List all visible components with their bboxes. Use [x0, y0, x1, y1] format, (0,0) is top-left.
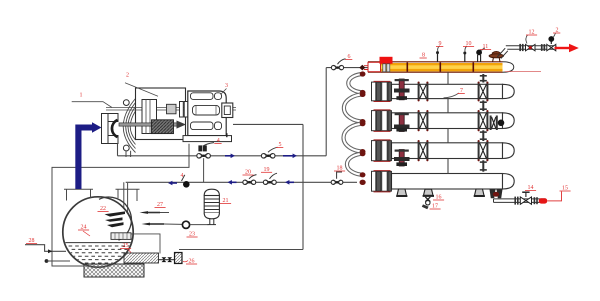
motor base plate [183, 136, 232, 142]
gauge 23 [182, 221, 189, 228]
branch fitting row 2 [399, 79, 404, 100]
sight glass ball [183, 181, 190, 188]
insulated heating pad 25 [84, 264, 144, 277]
tank label leaders [83, 231, 90, 236]
valve 18 [331, 180, 335, 184]
mid vertical connectors [447, 72, 449, 84]
inlet guide vane (dark crescent) [112, 120, 118, 137]
sample valve with handwheel (row3 right) [490, 116, 492, 131]
label 7 (tube row 2) [444, 93, 460, 98]
orifice fitting row 2 [478, 83, 480, 101]
inlet line to test tube [326, 67, 368, 69]
flange group row 3 [372, 111, 376, 131]
wire: compressor base down to discharge pipe [117, 144, 119, 156]
valve 11 on tube top [478, 55, 481, 62]
condenser tube row 2 [392, 84, 503, 98]
flange group row 4 [372, 141, 376, 161]
wire: bottom run to heater drive [179, 249, 303, 251]
svg-text:3: 3 [225, 83, 228, 89]
valve 19 [263, 180, 267, 184]
reducer fitting [359, 65, 365, 71]
return line (lower) [126, 181, 357, 183]
branch DC valve to return line [203, 158, 205, 182]
U-bend 150-181 [347, 154, 364, 175]
discharge pipe (upper line) [118, 155, 327, 157]
U-bend 67-91 [348, 74, 364, 92]
orifice fitting row 3 [478, 111, 480, 130]
drain stub [45, 259, 49, 263]
wire: motor output to right drop [233, 123, 303, 125]
electric heater elements 22 [105, 211, 126, 216]
riser to test tube inlet [325, 68, 327, 156]
drive shaft with couplings [159, 259, 175, 261]
orifice fitting row 3 [418, 111, 420, 130]
condenser tube row 5 [392, 174, 503, 190]
orifice fitting row 2 [418, 83, 420, 101]
valve 5 [261, 154, 266, 159]
valve 14 [520, 197, 526, 204]
vapour flow arrow (red) [555, 47, 571, 49]
red inlet block [380, 57, 393, 64]
valve 12 [526, 44, 531, 50]
heater terminal box [111, 233, 131, 240]
return port ring [360, 180, 366, 185]
svg-text:4: 4 [181, 173, 184, 179]
condenser tube row 4 [392, 143, 503, 159]
support foot row 5 [397, 189, 407, 196]
blue suction column from tank [75, 125, 81, 190]
valve 20 [243, 180, 247, 184]
svg-text:1: 1 [80, 93, 83, 99]
drain valve 16/17 under row5 [424, 189, 434, 195]
branch fitting row 3 [399, 113, 404, 132]
motor M1 [188, 91, 226, 136]
tank necks [64, 189, 93, 200]
thermocouple to gauge [142, 223, 151, 226]
U-bend 91-120 [344, 94, 364, 121]
red outlet block [539, 198, 547, 203]
orifice fitting row 4 [478, 141, 480, 160]
flange pair [519, 44, 521, 51]
thermowell 10 [464, 54, 466, 62]
accumulator 21 [204, 189, 219, 195]
vapour outlet pipe [497, 48, 508, 58]
tank shell T1 [63, 197, 133, 267]
bearing block [142, 100, 157, 134]
valve 6 [331, 65, 335, 69]
wire from terminal box to heater strip [131, 234, 160, 254]
flow arrow [289, 181, 294, 183]
test tube 8 (heated, orange) [381, 63, 503, 71]
bottom outlet fittings [490, 189, 496, 198]
return drop into tank [124, 182, 128, 233]
svg-text:2: 2 [126, 73, 129, 79]
flange group row 5 [372, 171, 376, 191]
branch fitting row 4 [399, 150, 404, 167]
solenoid valve 4 (DC) on discharge [198, 145, 202, 151]
flange group row 2 [372, 82, 376, 101]
scroll support legs [126, 151, 131, 157]
liquid outlet pipe [494, 199, 546, 203]
flow arrow [225, 155, 231, 157]
upper shaft [106, 108, 236, 111]
lower drive shaft with gear block [119, 123, 181, 126]
compressor gearbox body [136, 88, 186, 140]
fan scroll (bell arcs) [123, 99, 135, 153]
wire: right drop x=303 [302, 124, 304, 249]
orifice fitting row 4 [418, 141, 420, 160]
condenser tube row 3 [392, 113, 503, 129]
motor end bearing [222, 103, 233, 118]
relief flange [492, 51, 500, 55]
thermowell 9 [437, 54, 439, 63]
shaft coupling [167, 104, 177, 114]
flow arrow [232, 181, 237, 183]
support foot row 5 [475, 189, 485, 196]
flow arrow [283, 155, 293, 157]
right-end connectors [482, 74, 484, 83]
water inlet 28 [25, 245, 66, 252]
U-bend 120-150 [344, 124, 364, 152]
blue suction arrow into compressor [75, 122, 101, 189]
inner shell arc [99, 197, 131, 240]
flow arrow (to tank) [172, 182, 177, 184]
flange pair [541, 44, 543, 51]
compressor inlet bracket [102, 114, 119, 144]
drive box 26 [175, 253, 183, 264]
faint axis line [505, 71, 541, 73]
baffle ticks [407, 63, 473, 72]
thermocouple 27 [140, 211, 149, 214]
oil line from motor base to water tray [52, 144, 189, 266]
stop valve 2 [547, 44, 552, 50]
